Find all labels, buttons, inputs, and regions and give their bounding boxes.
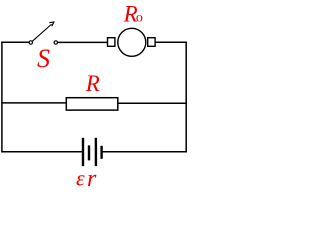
switch S blade with arrow: [32, 22, 54, 41]
svg-text:R: R: [85, 71, 100, 96]
wire: left rail: [1, 42, 3, 153]
svg-text:r: r: [87, 166, 97, 192]
wire: middle rail left of resistor: [1, 102, 66, 104]
switch S left terminal circle: [29, 41, 32, 44]
wire: bottom rail left segment: [1, 151, 82, 153]
switch S right terminal circle: [54, 41, 57, 44]
battery cell plate short 2: [100, 146, 102, 159]
battery cell plate long 1: [82, 138, 84, 166]
motor R0 left terminal square: [108, 38, 115, 47]
wire: top rail between switch and motor: [58, 41, 108, 43]
battery cell plate long 2: [95, 138, 97, 166]
motor R0 body circle: [118, 28, 146, 56]
wire: middle rail right of resistor: [118, 102, 187, 104]
svg-text:o: o: [136, 11, 143, 26]
wire: top rail right segment: [155, 41, 187, 43]
resistor R body: [66, 98, 118, 110]
svg-text:ε: ε: [76, 166, 85, 191]
wire: top rail left segment: [1, 41, 29, 43]
motor R0 right terminal square: [148, 38, 155, 47]
svg-text:S: S: [37, 44, 50, 73]
wire: bottom rail right segment: [102, 151, 187, 153]
wire: right rail: [185, 42, 187, 153]
battery cell plate short 1: [88, 145, 90, 160]
